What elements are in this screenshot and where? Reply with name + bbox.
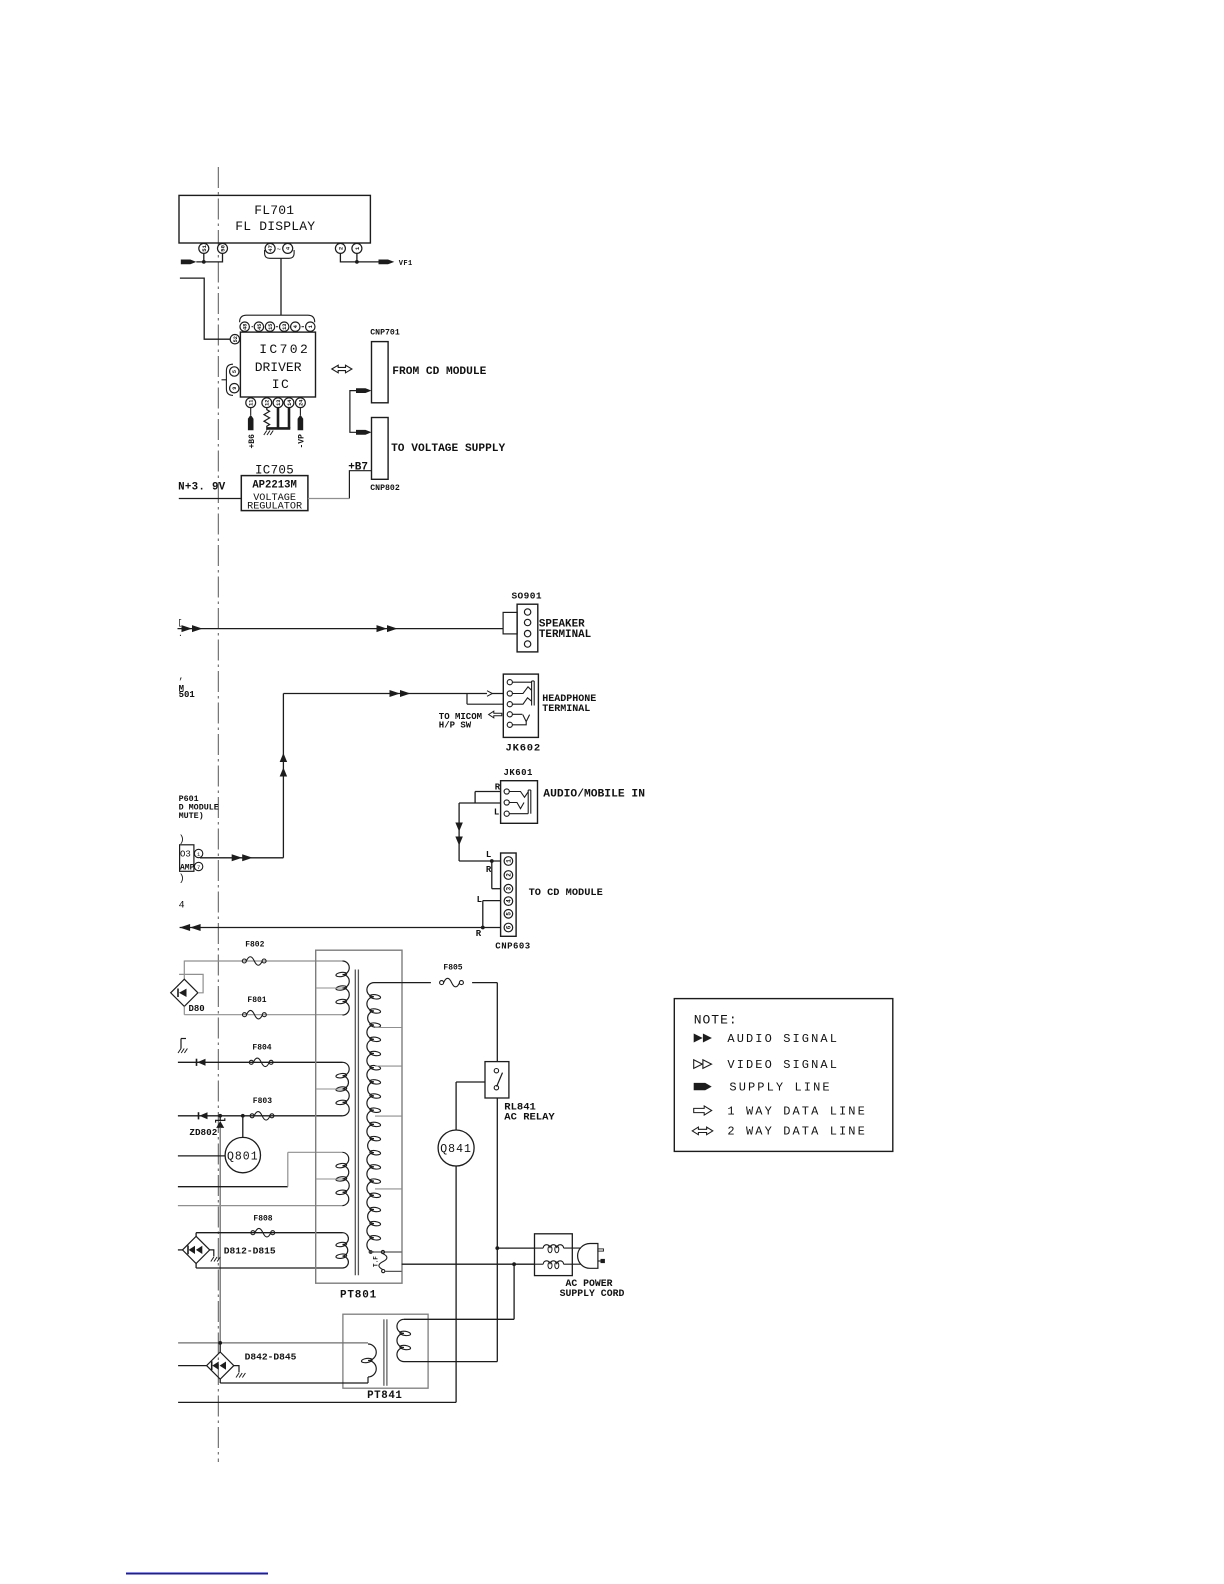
- svg-text:3: 3: [506, 887, 513, 891]
- svg-text:Q841: Q841: [440, 1143, 472, 1156]
- svg-text:1: 1: [197, 852, 200, 858]
- svg-text:51: 51: [201, 244, 208, 251]
- svg-text:TERMINAL: TERMINAL: [542, 704, 590, 715]
- svg-text:AC POWER: AC POWER: [565, 1278, 612, 1289]
- svg-text:F801: F801: [247, 996, 266, 1005]
- svg-text:15: 15: [268, 324, 274, 330]
- svg-text:H/P SW: H/P SW: [439, 721, 472, 731]
- svg-text:D812-D815: D812-D815: [224, 1245, 276, 1256]
- svg-text:14: 14: [287, 400, 293, 406]
- svg-text:L: L: [486, 850, 491, 860]
- svg-text:TO VOLTAGE SUPPLY: TO VOLTAGE SUPPLY: [391, 443, 505, 455]
- svg-text:1: 1: [506, 859, 513, 863]
- svg-text:1: 1: [308, 325, 314, 328]
- svg-text:12: 12: [265, 400, 271, 406]
- svg-text:6: 6: [506, 925, 513, 929]
- svg-text:5: 5: [506, 912, 513, 916]
- svg-text:4: 4: [293, 325, 299, 328]
- svg-text:52: 52: [233, 336, 239, 342]
- svg-text:5: 5: [232, 370, 238, 373]
- svg-text:+B6: +B6: [248, 434, 257, 449]
- svg-text:24: 24: [298, 400, 304, 406]
- svg-text:,: ,: [179, 672, 184, 682]
- svg-text:~: ~: [277, 246, 281, 254]
- svg-text:FL701: FL701: [254, 203, 294, 218]
- svg-text:SO901: SO901: [511, 591, 542, 602]
- svg-text:N+3. 9V: N+3. 9V: [178, 481, 226, 493]
- svg-text:AMP: AMP: [180, 864, 195, 873]
- svg-text:1 WAY DATA LINE: 1 WAY DATA LINE: [727, 1104, 867, 1118]
- svg-text:SUPPLY CORD: SUPPLY CORD: [560, 1288, 625, 1299]
- svg-text:48: 48: [243, 324, 249, 330]
- svg-text:13: 13: [282, 324, 288, 330]
- svg-text:F808: F808: [253, 1215, 272, 1224]
- svg-text:MUTE): MUTE): [179, 811, 204, 821]
- svg-text:2 WAY DATA LINE: 2 WAY DATA LINE: [727, 1125, 867, 1139]
- svg-text:D80: D80: [189, 1004, 205, 1014]
- svg-text:CNP603: CNP603: [495, 941, 530, 951]
- svg-text:NOTE:: NOTE:: [694, 1012, 738, 1027]
- svg-text:JK601: JK601: [503, 768, 533, 778]
- svg-text:[: [: [178, 619, 183, 628]
- svg-text:R: R: [476, 929, 482, 939]
- svg-text:PT801: PT801: [340, 1289, 377, 1301]
- svg-text:Q801: Q801: [227, 1150, 259, 1163]
- svg-text:AP2213M: AP2213M: [252, 480, 297, 492]
- svg-text:2: 2: [506, 873, 513, 877]
- svg-text:L: L: [494, 808, 499, 818]
- svg-text:L: L: [477, 895, 482, 905]
- svg-text:F804: F804: [252, 1043, 271, 1052]
- svg-text:VIDEO SIGNAL: VIDEO SIGNAL: [727, 1058, 839, 1072]
- svg-text:47: 47: [267, 245, 274, 252]
- svg-text:13: 13: [276, 400, 282, 406]
- svg-text:REGULATOR: REGULATOR: [247, 501, 302, 512]
- svg-text:4: 4: [179, 901, 185, 912]
- svg-text:IC702: IC702: [259, 342, 310, 357]
- svg-text:501: 501: [179, 690, 196, 700]
- svg-text:TERMINAL: TERMINAL: [539, 629, 591, 641]
- svg-text:SUPPLY LINE: SUPPLY LINE: [729, 1080, 831, 1094]
- svg-text:FROM CD MODULE: FROM CD MODULE: [392, 366, 486, 378]
- svg-text:F805: F805: [443, 964, 462, 973]
- svg-text:F802: F802: [245, 940, 264, 949]
- svg-text:CNP802: CNP802: [370, 484, 400, 493]
- svg-text:R: R: [486, 865, 492, 875]
- svg-text:9: 9: [232, 387, 238, 390]
- svg-text:11: 11: [249, 400, 255, 406]
- svg-text:50: 50: [220, 244, 227, 251]
- svg-text:AUDIO SIGNAL: AUDIO SIGNAL: [727, 1032, 839, 1046]
- svg-text:T.F: T.F: [373, 1256, 380, 1267]
- svg-text:4: 4: [506, 899, 513, 903]
- svg-text:VF1: VF1: [399, 260, 413, 268]
- svg-text:+B7: +B7: [348, 461, 368, 473]
- svg-text:AC RELAY: AC RELAY: [504, 1112, 555, 1124]
- svg-text:): ): [179, 873, 185, 885]
- svg-text:ZD802: ZD802: [189, 1127, 217, 1138]
- svg-text:7: 7: [197, 865, 200, 871]
- svg-text:IC: IC: [272, 377, 291, 392]
- svg-text:D842-D845: D842-D845: [245, 1351, 297, 1362]
- svg-text:AUDIO/MOBILE IN: AUDIO/MOBILE IN: [543, 788, 645, 800]
- svg-text:JK602: JK602: [506, 743, 542, 755]
- svg-text:O3: O3: [180, 850, 191, 860]
- svg-text:DRIVER: DRIVER: [255, 360, 302, 375]
- svg-text:TO CD MODULE: TO CD MODULE: [529, 887, 603, 899]
- svg-text:45: 45: [257, 324, 263, 330]
- svg-text:F803: F803: [253, 1097, 272, 1106]
- svg-text:.: .: [178, 630, 183, 639]
- svg-text:-VP: -VP: [297, 434, 306, 449]
- svg-text:PT841: PT841: [367, 1390, 402, 1402]
- svg-text:CNP701: CNP701: [370, 329, 400, 338]
- svg-text:FL DISPLAY: FL DISPLAY: [235, 219, 315, 234]
